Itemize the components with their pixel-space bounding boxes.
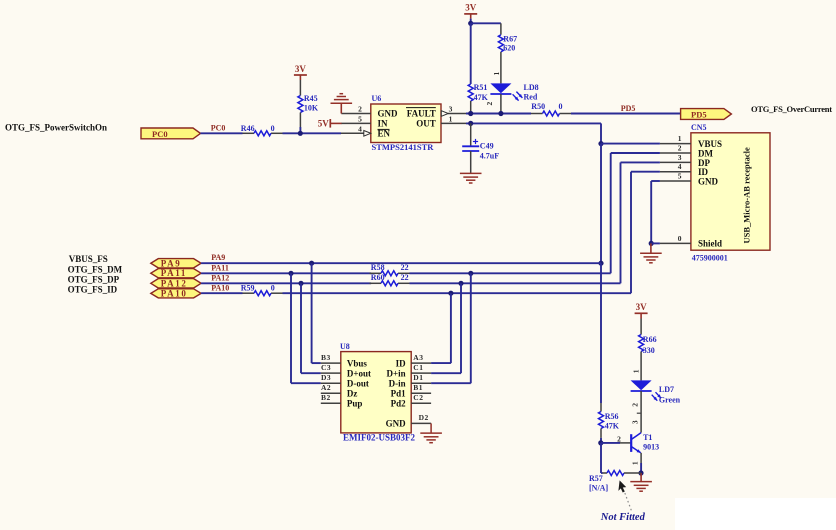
svg-text:Pup: Pup xyxy=(347,399,363,409)
svg-text:4.7uF: 4.7uF xyxy=(480,151,499,160)
svg-text:EMIF02-USB03F2: EMIF02-USB03F2 xyxy=(343,432,416,442)
svg-text:4: 4 xyxy=(678,162,682,171)
svg-text:C49: C49 xyxy=(480,142,494,151)
svg-text:R51: R51 xyxy=(474,83,488,92)
svg-text:OTG_FS_ID: OTG_FS_ID xyxy=(68,284,118,294)
svg-text:3V: 3V xyxy=(465,3,477,13)
svg-text:Dz: Dz xyxy=(347,389,358,399)
svg-text:2: 2 xyxy=(617,434,621,443)
svg-text:CN5: CN5 xyxy=(691,123,707,132)
svg-text:620: 620 xyxy=(503,43,515,52)
svg-text:10K: 10K xyxy=(304,103,319,112)
svg-text:PD5: PD5 xyxy=(691,110,707,120)
svg-text:5: 5 xyxy=(358,114,362,123)
svg-text:PA11: PA11 xyxy=(211,263,229,272)
svg-text:D-out: D-out xyxy=(347,379,369,389)
svg-text:1: 1 xyxy=(631,461,640,465)
svg-text:0: 0 xyxy=(271,124,275,133)
svg-text:2: 2 xyxy=(485,101,494,105)
svg-text:R50: R50 xyxy=(531,102,545,111)
svg-text:5: 5 xyxy=(678,172,682,181)
svg-text:LD7: LD7 xyxy=(659,385,674,394)
svg-text:PA10: PA10 xyxy=(211,284,229,293)
svg-text:GND: GND xyxy=(698,176,719,186)
svg-text:ID: ID xyxy=(396,358,407,368)
svg-text:47K: 47K xyxy=(605,421,620,430)
svg-text:T1: T1 xyxy=(643,433,652,442)
svg-text:0: 0 xyxy=(559,102,563,111)
svg-text:2: 2 xyxy=(631,403,640,407)
svg-text:0: 0 xyxy=(678,234,682,243)
svg-text:C2: C2 xyxy=(413,393,423,402)
svg-text:C3: C3 xyxy=(321,363,331,372)
svg-text:Not Fitted: Not Fitted xyxy=(600,512,646,523)
svg-text:PA9: PA9 xyxy=(211,253,225,262)
svg-text:OUT: OUT xyxy=(416,119,436,129)
svg-text:PA10: PA10 xyxy=(161,288,188,298)
svg-text:Shield: Shield xyxy=(698,239,722,249)
svg-text:OTG_FS_OverCurrent: OTG_FS_OverCurrent xyxy=(751,104,832,114)
svg-text:R59: R59 xyxy=(241,284,255,293)
svg-text:22: 22 xyxy=(401,273,409,282)
svg-text:3: 3 xyxy=(631,420,640,424)
svg-text:GND: GND xyxy=(386,419,407,429)
svg-text:D3: D3 xyxy=(321,373,331,382)
svg-text:3V: 3V xyxy=(636,302,648,312)
svg-text:2: 2 xyxy=(678,144,682,153)
svg-text:FAULT: FAULT xyxy=(407,109,436,119)
svg-text:Pd2: Pd2 xyxy=(391,399,407,409)
svg-text:D2: D2 xyxy=(419,413,429,422)
svg-text:PC0: PC0 xyxy=(152,129,168,139)
svg-text:A2: A2 xyxy=(321,383,331,392)
svg-text:475900001: 475900001 xyxy=(692,254,728,263)
svg-text:3: 3 xyxy=(449,105,453,114)
svg-text:1: 1 xyxy=(492,71,501,75)
svg-text:PA12: PA12 xyxy=(161,278,188,288)
svg-text:IN: IN xyxy=(378,119,389,129)
svg-text:Pd1: Pd1 xyxy=(391,389,407,399)
svg-text:PA11: PA11 xyxy=(161,268,187,278)
svg-text:3V: 3V xyxy=(295,64,307,74)
svg-text:22: 22 xyxy=(401,263,409,272)
svg-text:STMPS2141STR: STMPS2141STR xyxy=(372,142,435,152)
svg-text:9013: 9013 xyxy=(643,443,659,452)
svg-text:VBUS_FS: VBUS_FS xyxy=(69,254,108,264)
svg-text:B3: B3 xyxy=(321,353,331,362)
svg-text:PA12: PA12 xyxy=(211,273,229,282)
svg-text:B1: B1 xyxy=(413,383,423,392)
svg-text:330: 330 xyxy=(643,346,655,355)
svg-text:Green: Green xyxy=(659,396,681,405)
svg-text:D1: D1 xyxy=(413,373,423,382)
svg-text:R46: R46 xyxy=(241,124,255,133)
svg-text:D+in: D+in xyxy=(386,368,405,378)
svg-text:5V: 5V xyxy=(318,119,330,129)
svg-text:R66: R66 xyxy=(643,335,657,344)
svg-text:U6: U6 xyxy=(372,94,382,103)
svg-text:3: 3 xyxy=(678,153,682,162)
svg-text:R60: R60 xyxy=(371,273,385,282)
svg-text:D+out: D+out xyxy=(347,368,371,378)
svg-text:PD5: PD5 xyxy=(621,104,636,113)
svg-text:1: 1 xyxy=(449,114,453,123)
svg-text:Vbus: Vbus xyxy=(347,358,368,368)
svg-text:[N/A]: [N/A] xyxy=(589,484,608,493)
svg-text:GND: GND xyxy=(378,109,399,119)
svg-text:LD8: LD8 xyxy=(524,83,539,92)
svg-text:1: 1 xyxy=(678,134,682,143)
svg-text:D-in: D-in xyxy=(389,379,406,389)
svg-text:R58: R58 xyxy=(371,263,385,272)
svg-text:OTG_FS_DP: OTG_FS_DP xyxy=(68,274,120,284)
svg-text:47K: 47K xyxy=(474,93,489,102)
svg-text:C1: C1 xyxy=(413,363,423,372)
svg-text:R56: R56 xyxy=(605,412,619,421)
svg-text:2: 2 xyxy=(358,105,362,114)
svg-text:USB_Micro-AB receptacle: USB_Micro-AB receptacle xyxy=(742,147,752,243)
svg-text:PA9: PA9 xyxy=(161,258,182,268)
svg-text:OTG_FS_DM: OTG_FS_DM xyxy=(68,264,123,274)
svg-text:U8: U8 xyxy=(340,342,350,351)
svg-text:PC0: PC0 xyxy=(211,124,226,133)
svg-text:Red: Red xyxy=(524,92,538,101)
svg-text:4: 4 xyxy=(358,124,362,133)
svg-text:R67: R67 xyxy=(503,35,517,44)
svg-text:B2: B2 xyxy=(321,393,331,402)
svg-text:R57: R57 xyxy=(589,474,603,483)
svg-text:OTG_FS_PowerSwitchOn: OTG_FS_PowerSwitchOn xyxy=(5,123,107,133)
svg-text:1: 1 xyxy=(631,369,640,373)
svg-text:A3: A3 xyxy=(413,353,423,362)
svg-text:R45: R45 xyxy=(304,94,318,103)
svg-text:0: 0 xyxy=(271,284,275,293)
